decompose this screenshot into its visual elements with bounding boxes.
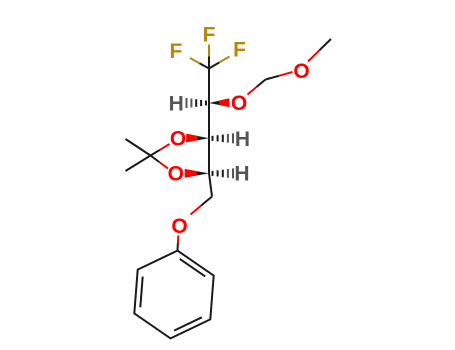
bond C1-F right, half gold <box>209 63 219 69</box>
svg-text:O: O <box>168 163 184 186</box>
acetonide methyl stub 1 <box>126 139 151 156</box>
wedge bond C3-O3, red tip <box>186 134 209 143</box>
bond O4-acetal carbon, half red <box>151 156 160 163</box>
svg-text:O: O <box>171 215 187 238</box>
benzene ring outline <box>134 251 213 339</box>
svg-text:O: O <box>170 127 186 150</box>
bond O6-ring ipso, half red <box>177 243 179 251</box>
svg-text:F: F <box>203 23 216 46</box>
bond C2-C3 <box>208 103 210 138</box>
bond O2-CH2a, half red <box>257 80 266 88</box>
bond C4-C5 <box>209 173 212 196</box>
svg-text:O: O <box>293 60 309 83</box>
bond C3-C4 <box>208 138 210 173</box>
bond CH2a-O5, half red <box>266 76 280 80</box>
ring double bond 3 <box>140 277 142 308</box>
ring double bond 1 <box>180 259 205 277</box>
svg-text:O: O <box>231 92 247 115</box>
svg-text:F: F <box>169 40 182 63</box>
bond C1-C2 <box>208 69 210 104</box>
bond C1-F top, half gold <box>208 57 210 69</box>
svg-text:H: H <box>234 163 249 186</box>
bond C1-F left, half gold <box>200 63 210 68</box>
bond O5-CH3, half red <box>320 39 332 50</box>
hashed bond C2-H <box>205 101 207 106</box>
bond C5-O6, half red <box>201 197 212 206</box>
ring double bond 2 <box>174 317 202 330</box>
bond O3-acetal carbon, half red <box>151 150 161 156</box>
acetonide methyl stub 2 <box>126 156 151 172</box>
svg-text:H: H <box>169 93 184 116</box>
svg-text:H: H <box>235 128 250 151</box>
hashed bond C4-H <box>212 171 214 176</box>
hashed bond C3-H <box>212 136 214 141</box>
wedge bond C4-O4, red tip <box>185 169 209 178</box>
svg-text:F: F <box>233 39 246 62</box>
wedge bond C2-O2, red tip <box>209 98 229 107</box>
